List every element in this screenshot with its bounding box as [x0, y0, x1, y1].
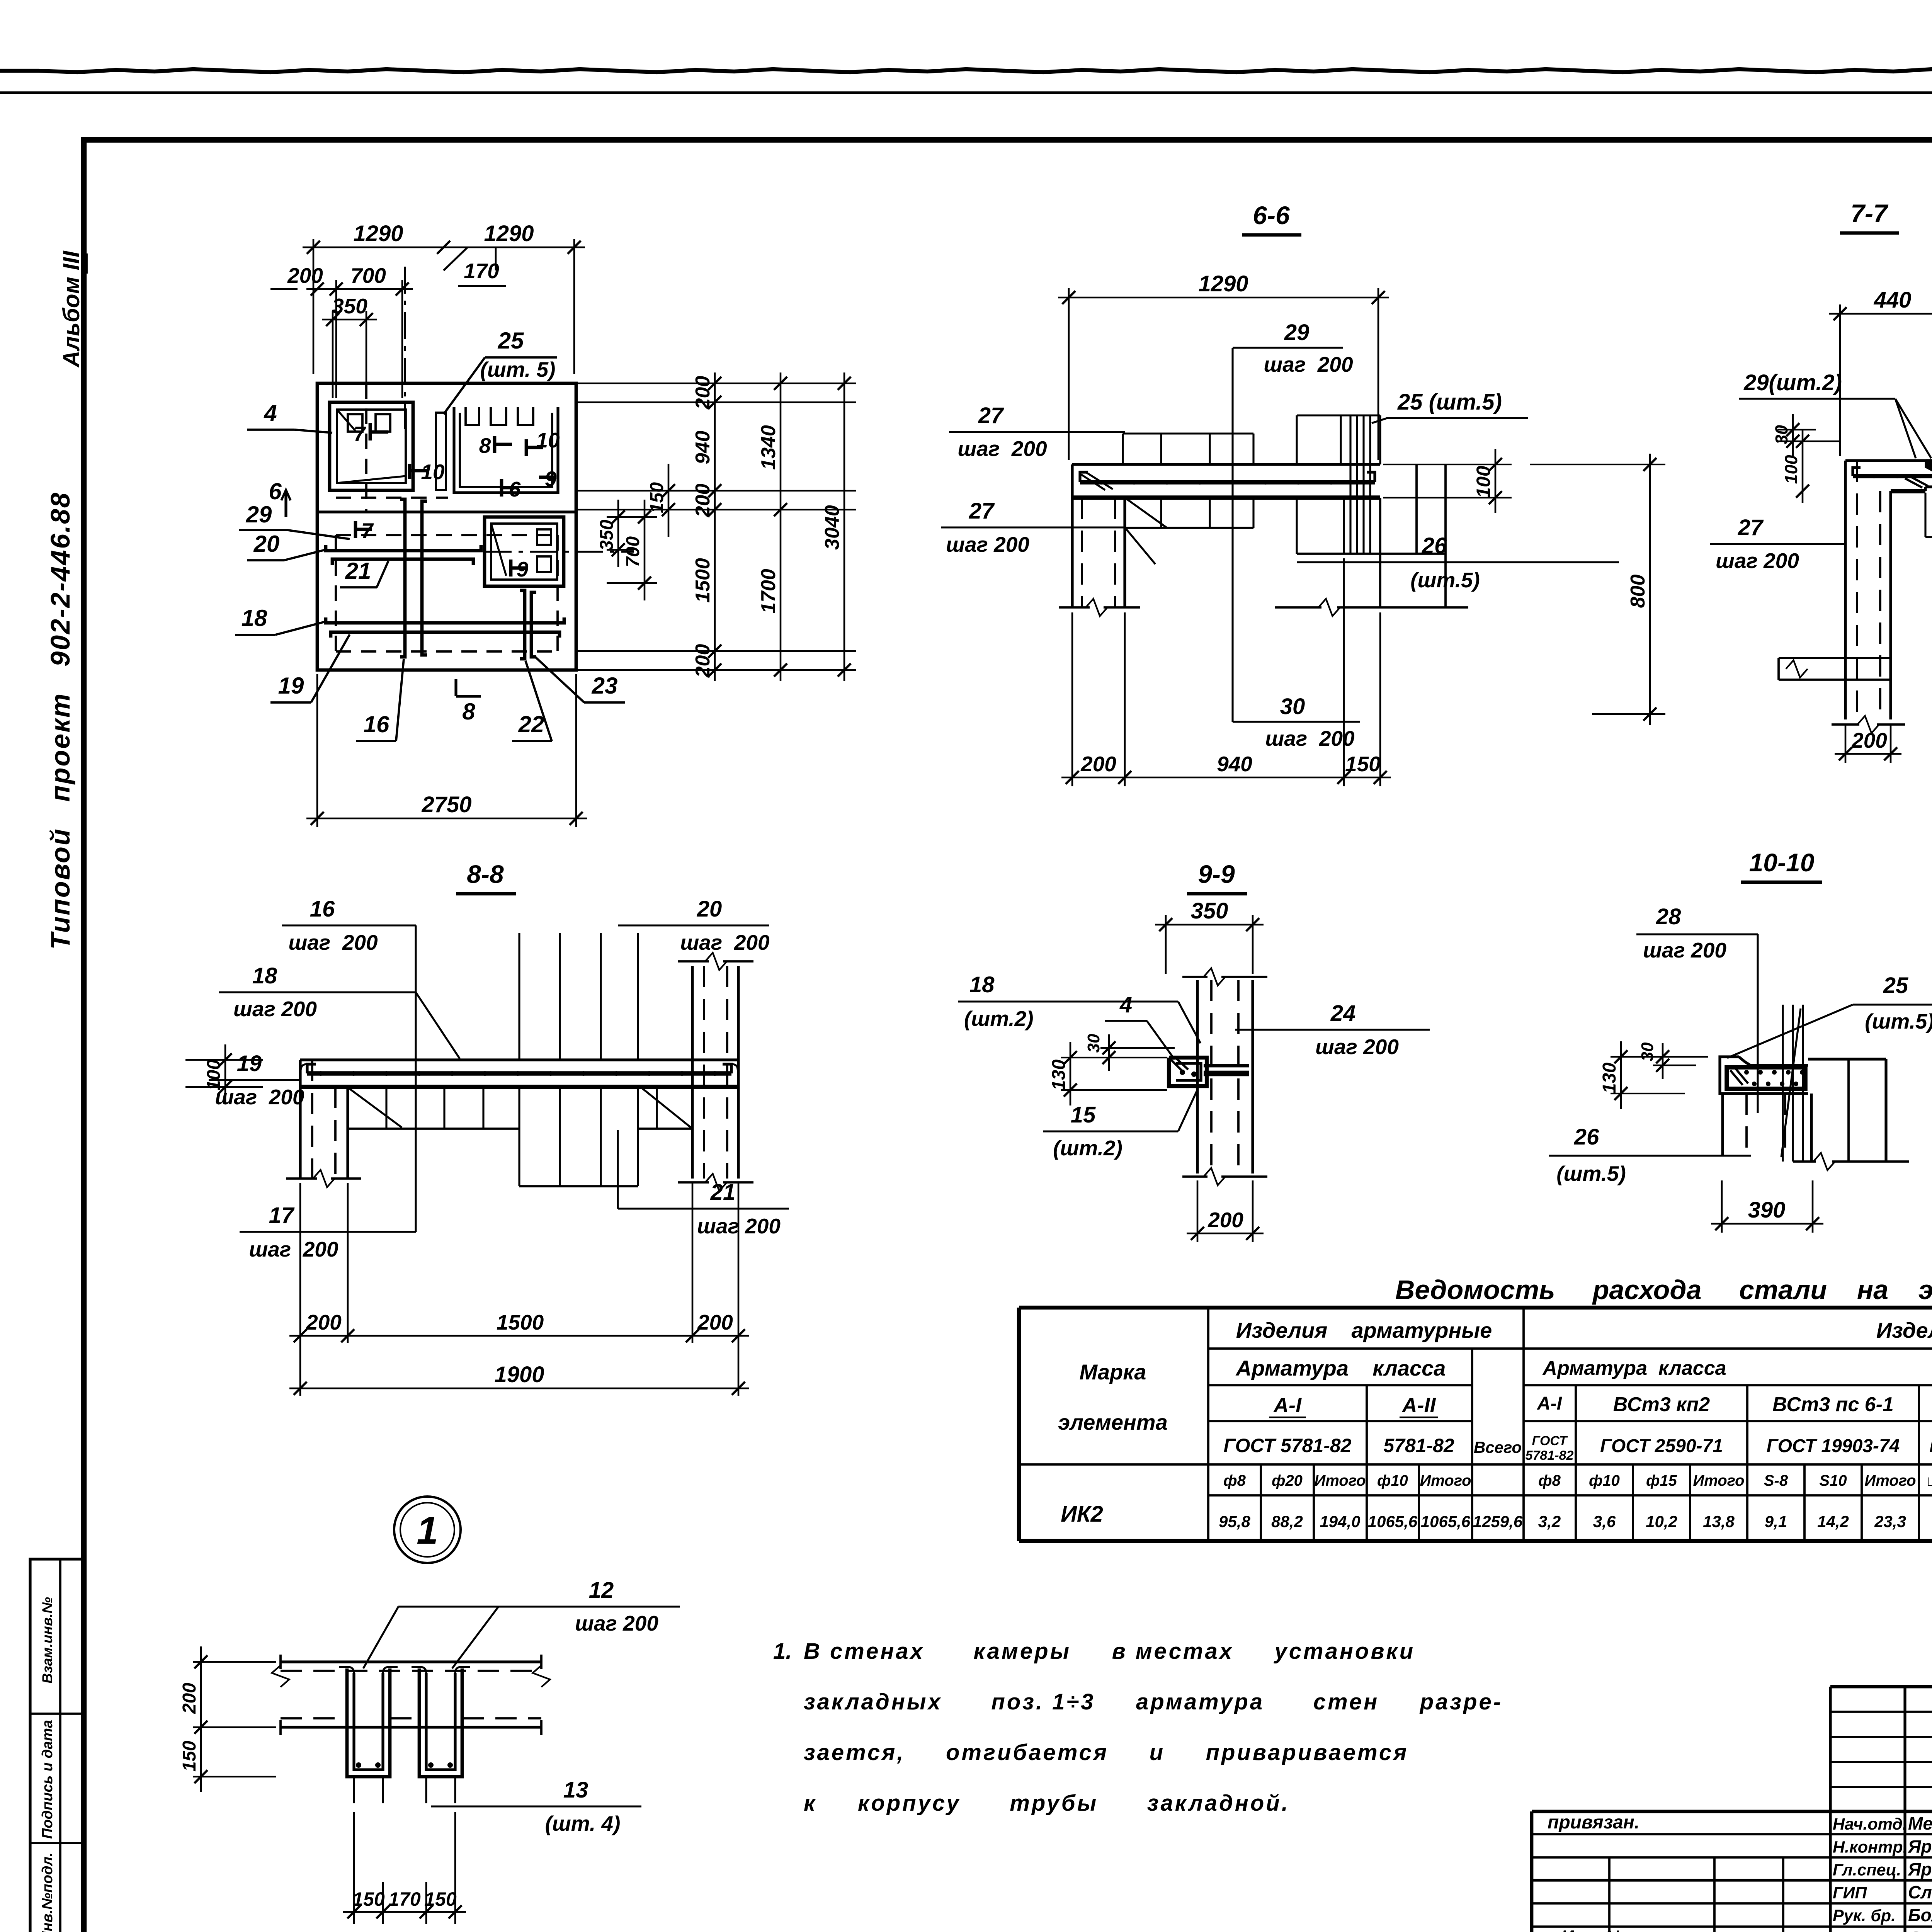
plan right dim chain A	[578, 383, 856, 384]
svg-text:шаг 200: шаг 200	[1716, 549, 1799, 573]
plan dashed zone lower	[336, 534, 558, 536]
9-9 anchor bar	[1204, 1064, 1249, 1068]
svg-text:3,6: 3,6	[1593, 1512, 1616, 1531]
svg-text:10-10: 10-10	[1749, 848, 1815, 877]
6-6 slab rebar	[1080, 480, 1375, 485]
svg-text:170: 170	[464, 259, 499, 283]
svg-text:130: 130	[1599, 1063, 1620, 1094]
svg-text:ВСт3 пс 6-1: ВСт3 пс 6-1	[1772, 1393, 1894, 1416]
svg-text:Ярошенко: Ярошенко	[1908, 1836, 1932, 1856]
svg-text:200: 200	[1851, 728, 1887, 752]
7-7 corbel rebar	[1853, 474, 1932, 478]
svg-text:(шт. 4): (шт. 4)	[545, 1811, 621, 1835]
svg-text:200: 200	[287, 264, 323, 287]
svg-text:ГИП: ГИП	[1833, 1884, 1867, 1902]
svg-text:19: 19	[237, 1051, 262, 1076]
svg-text:150: 150	[424, 1888, 457, 1910]
9-9 dim 130	[1061, 1057, 1167, 1058]
plan vertical bar 16	[400, 499, 405, 657]
svg-text:ф10: ф10	[1589, 1472, 1620, 1489]
svg-text:ф20: ф20	[1272, 1472, 1303, 1489]
svg-text:200: 200	[179, 1683, 200, 1714]
plan right dim chain C	[844, 372, 845, 681]
10-10 right block	[1808, 1058, 1886, 1060]
10-10 dim 130	[1611, 1056, 1708, 1058]
7-7 dim 100	[1802, 430, 1804, 503]
svg-text:Болотова: Болотова	[1908, 1905, 1932, 1925]
svg-text:8: 8	[479, 434, 491, 457]
svg-text:800: 800	[1627, 575, 1649, 608]
10-10 rebar cage	[1727, 1067, 1805, 1089]
svg-text:(шт.5): (шт.5)	[1556, 1162, 1626, 1185]
svg-text:350: 350	[332, 294, 367, 318]
svg-text:шаг 200: шаг 200	[957, 437, 1047, 461]
svg-text:(шт.2): (шт.2)	[964, 1007, 1034, 1031]
detail 1 stirrup 1	[347, 1668, 390, 1777]
6-6 slab	[1072, 463, 1380, 466]
svg-text:1700: 1700	[757, 569, 780, 614]
svg-text:17: 17	[269, 1203, 295, 1228]
10-10 bottom dim 390	[1721, 1180, 1723, 1233]
8-8 leader ladder vertical	[415, 925, 417, 1232]
6-6 right top panel	[1297, 414, 1380, 416]
svg-text:30: 30	[1638, 1042, 1657, 1061]
svg-text:8-8: 8-8	[467, 860, 504, 888]
8-8 under-slab panel left	[347, 1087, 349, 1129]
svg-text:30: 30	[1280, 694, 1305, 719]
svg-text:В стенах камеры в мес: В стенах камеры в местах установки	[804, 1639, 1415, 1664]
svg-text:шаг 200: шаг 200	[288, 930, 378, 954]
6-6 bottom dim 200 940 150	[1071, 612, 1073, 786]
10-10 bar bundle	[1782, 1005, 1784, 1162]
svg-text:4: 4	[264, 400, 277, 426]
svg-text:19: 19	[278, 673, 304, 699]
plan bar 18	[326, 617, 564, 623]
svg-text:2750: 2750	[421, 792, 471, 817]
svg-text:150: 150	[179, 1741, 200, 1772]
svg-text:27: 27	[978, 403, 1004, 428]
svg-text:194,0: 194,0	[1320, 1512, 1360, 1531]
svg-text:27: 27	[1738, 515, 1764, 540]
svg-text:700: 700	[350, 264, 386, 287]
svg-text:18: 18	[252, 963, 277, 988]
svg-text:шаг 200: шаг 200	[1315, 1035, 1399, 1059]
svg-text:ГОСТ 5781-82: ГОСТ 5781-82	[1223, 1435, 1351, 1456]
svg-text:Славянский: Славянский	[1908, 1882, 1932, 1902]
6-6 leader vertical	[1231, 348, 1233, 722]
svg-text:150: 150	[647, 482, 667, 513]
svg-text:шаг 200: шаг 200	[249, 1237, 338, 1261]
plan top dim 1290+1290	[313, 239, 315, 374]
plan bar 21	[332, 559, 473, 565]
svg-text:6: 6	[269, 478, 282, 504]
svg-text:22: 22	[518, 711, 544, 737]
svg-text:27: 27	[969, 498, 995, 524]
svg-text:3040: 3040	[821, 505, 844, 550]
svg-text:95,8: 95,8	[1219, 1512, 1250, 1531]
svg-text:1290: 1290	[484, 221, 534, 246]
9-9 dim 30	[1100, 1047, 1175, 1049]
svg-text:9-9: 9-9	[1198, 860, 1235, 888]
svg-text:Изделия закладные: Изделия закладные	[1876, 1318, 1932, 1342]
plan vertical bar 25	[436, 413, 446, 490]
6-6 dim 100	[1383, 464, 1512, 465]
10-10 concrete outline	[1720, 1057, 1808, 1094]
8-8 right wall	[691, 966, 694, 1179]
svg-text:200: 200	[692, 644, 714, 678]
svg-text:Взам.инв.№: Взам.инв.№	[39, 1597, 55, 1684]
svg-text:1340: 1340	[757, 425, 780, 470]
plan right mini dims 150	[657, 490, 680, 492]
svg-text:ГОСТ 2590-71: ГОСТ 2590-71	[1600, 1436, 1723, 1456]
8-8 slab	[300, 1058, 738, 1061]
detail 1 marker circle	[394, 1497, 461, 1563]
svg-text:Марка: Марка	[1080, 1360, 1146, 1384]
plan section arrow 8 bottom	[454, 679, 457, 696]
svg-text:зается, отгибается и: зается, отгибается и приваривается	[804, 1740, 1408, 1765]
svg-text:Инв.№подл.: Инв.№подл.	[39, 1852, 56, 1932]
svg-text:390: 390	[1748, 1197, 1786, 1223]
svg-text:23: 23	[592, 673, 618, 699]
8-8 slab rebar	[307, 1071, 731, 1076]
svg-text:Н.контр.: Н.контр.	[1833, 1838, 1907, 1856]
svg-text:∟63х5: ∟63х5	[1925, 1473, 1932, 1489]
svg-text:ГОСТ 19903-74: ГОСТ 19903-74	[1767, 1436, 1900, 1456]
svg-text:Изделия арматурные: Изделия арматурные	[1236, 1318, 1492, 1342]
svg-text:1065,6: 1065,6	[1421, 1512, 1471, 1531]
6-6 under-slab beam panel	[1124, 498, 1126, 528]
7-7 wall	[1844, 461, 1847, 719]
10-10 wall below	[1721, 1094, 1724, 1155]
detail 1 stirrup 2	[419, 1668, 462, 1777]
6-6 bar bundle 25	[1349, 415, 1351, 554]
svg-text:29: 29	[1284, 320, 1310, 345]
svg-text:шаг 200: шаг 200	[1265, 726, 1355, 750]
svg-text:ф15: ф15	[1646, 1472, 1677, 1489]
plan dim 200 700	[335, 280, 337, 398]
detail 1 legs below	[353, 1777, 355, 1803]
svg-text:Итого: Итого	[1864, 1472, 1916, 1489]
svg-text:18: 18	[241, 605, 267, 631]
svg-text:21: 21	[345, 558, 371, 584]
svg-text:А-II: А-II	[1401, 1394, 1436, 1417]
6-6 right wall panels	[1415, 464, 1418, 554]
svg-text:ВСт3 кп2: ВСт3 кп2	[1613, 1393, 1710, 1416]
plan right mini dims 350 700	[607, 516, 657, 518]
svg-text:Итого: Итого	[1314, 1472, 1366, 1489]
svg-text:Арматура класса: Арматура класса	[1542, 1357, 1726, 1379]
svg-text:10,2: 10,2	[1646, 1512, 1677, 1531]
svg-text:12: 12	[589, 1578, 614, 1603]
8-8 bottom dims	[299, 1183, 301, 1343]
svg-text:13: 13	[563, 1777, 588, 1803]
svg-text:Ярошенко: Ярошенко	[1908, 1859, 1932, 1879]
detail 1 bottom dims	[353, 1812, 355, 1924]
svg-text:20: 20	[697, 896, 722, 922]
svg-text:1900: 1900	[494, 1362, 544, 1387]
plan bottom dim 2750	[316, 674, 318, 827]
svg-text:1500: 1500	[692, 558, 714, 603]
plan dashed zone upper	[336, 497, 448, 499]
svg-text:16: 16	[364, 711, 389, 737]
svg-text:21: 21	[710, 1180, 736, 1205]
plan right dim chain B	[780, 372, 782, 681]
8-8 under-slab panel right	[638, 1128, 692, 1130]
svg-text:150: 150	[1345, 752, 1381, 776]
plan upper-left embedded square 4	[330, 402, 413, 490]
svg-text:шаг 200: шаг 200	[1643, 938, 1726, 962]
svg-text:20: 20	[253, 531, 280, 557]
svg-text:1290: 1290	[353, 221, 403, 246]
svg-text:940: 940	[1217, 752, 1252, 776]
svg-text:200: 200	[692, 484, 714, 518]
svg-text:88,2: 88,2	[1271, 1512, 1303, 1531]
svg-text:25 (шт.5): 25 (шт.5)	[1397, 389, 1502, 415]
8-8 left wall	[299, 1060, 301, 1179]
svg-text:А-I: А-I	[1537, 1393, 1563, 1414]
svg-text:(шт.2): (шт.2)	[1053, 1136, 1122, 1160]
svg-text:23,3: 23,3	[1874, 1512, 1906, 1531]
svg-text:200: 200	[306, 1310, 342, 1334]
svg-text:170: 170	[388, 1888, 421, 1910]
svg-text:к корпусу трубы: к корпусу трубы закладной.	[804, 1791, 1290, 1816]
svg-text:29: 29	[246, 502, 272, 527]
svg-text:1: 1	[417, 1509, 438, 1552]
plan dim 350	[332, 311, 334, 398]
svg-text:Итого: Итого	[1693, 1472, 1744, 1489]
6-6 left top panel	[1123, 432, 1253, 434]
svg-text:Гл.спец.: Гл.спец.	[1833, 1861, 1901, 1879]
svg-text:18: 18	[969, 972, 995, 997]
plan vertical bar 22/23	[520, 590, 525, 659]
svg-text:26: 26	[1574, 1124, 1599, 1150]
top rule line	[0, 91, 1932, 94]
svg-text:Всего: Всего	[1474, 1438, 1522, 1456]
plan upper-right opening	[466, 407, 479, 425]
svg-text:16: 16	[310, 896, 335, 922]
svg-text:1500: 1500	[497, 1310, 544, 1334]
7-7 crossing slab dashed	[1779, 657, 1891, 659]
detail 1 left dims	[193, 1661, 276, 1663]
svg-text:Нач.отд.: Нач.отд.	[1833, 1815, 1907, 1833]
svg-text:24: 24	[1330, 1001, 1356, 1026]
svg-text:5781-82: 5781-82	[1526, 1448, 1574, 1463]
svg-text:7: 7	[354, 422, 366, 446]
svg-text:100: 100	[1781, 455, 1801, 484]
svg-text:940: 940	[692, 431, 714, 464]
svg-text:26: 26	[1422, 533, 1447, 558]
plan bar 20	[326, 545, 481, 551]
svg-text:29(шт.2): 29(шт.2)	[1743, 370, 1842, 395]
svg-text:Арматура класса: Арматура класса	[1235, 1356, 1446, 1380]
svg-text:Мешалкин: Мешалкин	[1908, 1813, 1932, 1833]
svg-text:(шт.5): (шт.5)	[1410, 568, 1480, 592]
svg-text:9,1: 9,1	[1765, 1512, 1787, 1531]
10-10 dim 30	[1653, 1065, 1696, 1066]
svg-text:15: 15	[1071, 1102, 1096, 1128]
7-7 dim 440	[1839, 304, 1841, 456]
svg-text:200: 200	[1080, 752, 1116, 776]
svg-text:6-6: 6-6	[1253, 201, 1290, 230]
svg-text:шаг 200: шаг 200	[233, 997, 317, 1021]
svg-text:шаг 200: шаг 200	[215, 1085, 304, 1109]
svg-text:30: 30	[1084, 1034, 1103, 1053]
svg-text:100: 100	[1473, 466, 1494, 498]
svg-text:4: 4	[1119, 992, 1132, 1017]
svg-text:1.: 1.	[773, 1639, 792, 1664]
plan centerline to right square	[485, 551, 634, 553]
detail 1 slab	[281, 1660, 541, 1663]
svg-text:350: 350	[597, 520, 617, 551]
svg-text:(шт.5): (шт.5)	[1865, 1009, 1932, 1033]
svg-text:150: 150	[352, 1888, 385, 1910]
svg-text:ф8: ф8	[1223, 1472, 1246, 1489]
plan bar 19	[331, 632, 560, 638]
svg-text:7-7: 7-7	[1850, 199, 1889, 228]
plan section arrow 6	[284, 492, 287, 517]
svg-text:закладных поз. 1÷3 ар: закладных поз. 1÷3 арматура стен разре-	[804, 1689, 1503, 1714]
svg-text:ГОСТ8509-86: ГОСТ8509-86	[1929, 1439, 1932, 1456]
svg-text:5781-82: 5781-82	[1383, 1435, 1454, 1456]
6-6 dim 1290	[1068, 288, 1070, 460]
8-8 column below slab	[518, 1087, 520, 1186]
svg-text:100: 100	[204, 1060, 224, 1090]
svg-text:А-I: А-I	[1273, 1394, 1302, 1417]
svg-text:Альбом III: Альбом III	[58, 250, 84, 368]
7-7 bottom dim 200	[1845, 724, 1847, 763]
svg-text:25: 25	[498, 328, 524, 354]
9-9 dim 350	[1165, 915, 1167, 974]
plan centerline vertical	[404, 267, 406, 429]
9-9 embedded channel detail	[1169, 1058, 1207, 1086]
steel table grid	[1019, 1306, 1932, 1310]
7-7 weld wedge 4	[1926, 461, 1932, 477]
svg-text:S-8: S-8	[1764, 1472, 1788, 1489]
8-8 column hatch above slab	[518, 933, 520, 1060]
svg-text:440: 440	[1874, 287, 1912, 313]
svg-text:шаг 200: шаг 200	[680, 930, 770, 954]
sidebar stamp box	[30, 1559, 83, 1932]
svg-text:14,2: 14,2	[1817, 1512, 1849, 1531]
svg-text:25: 25	[1883, 973, 1908, 998]
svg-text:Инв. №: Инв. №	[1561, 1927, 1626, 1932]
plan vertical bar 17	[422, 501, 427, 655]
svg-text:28: 28	[1656, 904, 1681, 929]
svg-text:8: 8	[462, 699, 475, 724]
8-8 dim 100	[185, 1059, 263, 1061]
svg-text:200: 200	[697, 1310, 733, 1334]
svg-text:шаг 200: шаг 200	[946, 532, 1029, 556]
svg-text:3,2: 3,2	[1538, 1512, 1561, 1531]
svg-text:30: 30	[1772, 425, 1791, 444]
svg-text:Сурова: Сурова	[1908, 1928, 1932, 1932]
svg-text:Рук. бр.: Рук. бр.	[1833, 1906, 1896, 1925]
svg-text:1259,6: 1259,6	[1473, 1512, 1523, 1531]
svg-text:1065,6: 1065,6	[1368, 1512, 1418, 1531]
svg-text:Подпись и дата: Подпись и дата	[39, 1720, 56, 1839]
svg-text:700: 700	[623, 536, 643, 567]
svg-text:130: 130	[1049, 1060, 1069, 1090]
svg-text:1290: 1290	[1198, 271, 1248, 296]
svg-text:Ведомость расхода стал: Ведомость расхода стали на элемент, кг.	[1395, 1275, 1932, 1305]
svg-text:ф10: ф10	[1377, 1472, 1408, 1489]
svg-text:шаг 200: шаг 200	[575, 1611, 658, 1635]
svg-text:(шт. 5): (шт. 5)	[480, 357, 556, 381]
svg-text:200: 200	[1207, 1208, 1243, 1232]
svg-text:ГОСТ: ГОСТ	[1532, 1434, 1568, 1448]
svg-text:350: 350	[1191, 898, 1228, 923]
svg-text:13,8: 13,8	[1703, 1512, 1735, 1531]
svg-text:шаг 200: шаг 200	[1264, 352, 1353, 376]
torn top edge	[0, 66, 1932, 72]
svg-text:Итого: Итого	[1420, 1472, 1471, 1489]
svg-text:привязан.: привязан.	[1548, 1812, 1639, 1833]
dim 800 between 6-6 and 7-7	[1530, 464, 1665, 465]
svg-text:ИК2: ИК2	[1061, 1502, 1103, 1527]
svg-text:S10: S10	[1819, 1472, 1847, 1489]
9-9 wall	[1196, 980, 1199, 1173]
plan view outline	[317, 383, 576, 670]
plan lower-right embedded square 4	[485, 517, 564, 586]
svg-text:ф8: ф8	[1538, 1472, 1561, 1489]
title block grid	[1830, 1685, 1932, 1689]
7-7 dim 30	[1777, 429, 1816, 430]
svg-text:элемента: элемента	[1058, 1410, 1167, 1434]
svg-text:Типовой проект 902-2-446.8: Типовой проект 902-2-446.88	[45, 492, 75, 950]
9-9 bottom dim 200	[1197, 1180, 1199, 1242]
svg-text:Ст.инж.: Ст.инж.	[1833, 1930, 1901, 1932]
svg-text:200: 200	[692, 376, 714, 410]
6-6 left wall	[1071, 498, 1073, 607]
7-7 corbel slab	[1845, 459, 1932, 462]
